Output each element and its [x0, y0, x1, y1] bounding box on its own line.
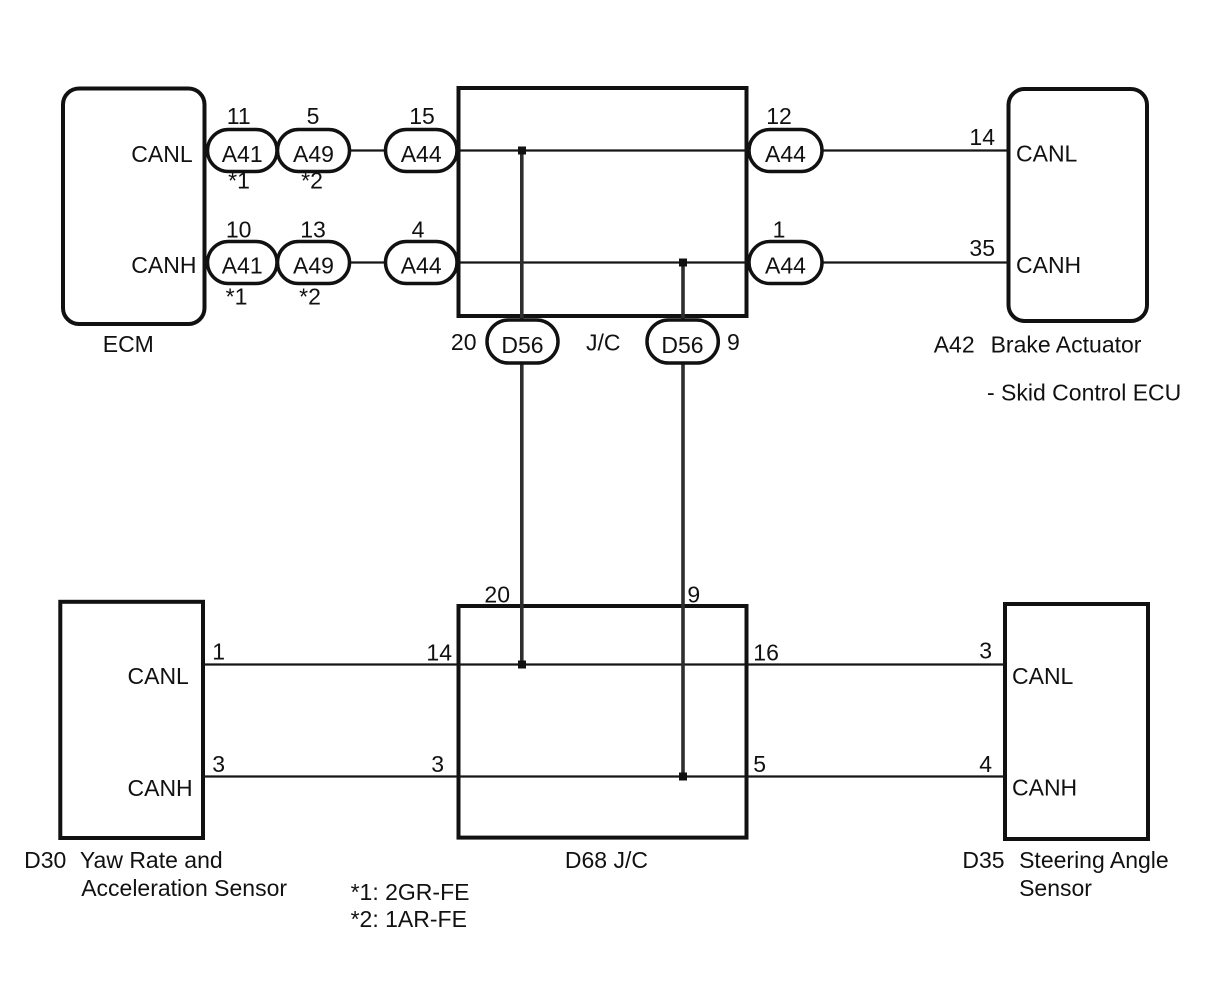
svg-text:A41: A41 [222, 141, 263, 167]
svg-text:12: 12 [766, 103, 792, 129]
svg-text:*2: *2 [299, 284, 321, 310]
svg-text:4: 4 [412, 217, 425, 243]
svg-text:A42: A42 [934, 332, 975, 358]
svg-text:CANH: CANH [1016, 252, 1081, 278]
svg-text:D35: D35 [962, 847, 1004, 873]
svg-text:A49: A49 [293, 141, 334, 167]
svg-text:Acceleration Sensor: Acceleration Sensor [81, 875, 287, 901]
svg-text:9: 9 [687, 582, 700, 608]
svg-text:5: 5 [307, 103, 320, 129]
svg-text:3: 3 [431, 751, 444, 777]
svg-text:20: 20 [484, 582, 510, 608]
svg-text:A44: A44 [401, 141, 442, 167]
svg-text:CANL: CANL [131, 141, 193, 167]
svg-text:A41: A41 [222, 253, 263, 279]
svg-text:Sensor: Sensor [1019, 875, 1092, 901]
svg-text:*2: *2 [301, 168, 323, 194]
svg-text:A49: A49 [293, 253, 334, 279]
svg-text:CANH: CANH [128, 775, 193, 801]
svg-text:CANL: CANL [1012, 663, 1074, 689]
svg-text:ECM: ECM [103, 331, 154, 357]
svg-text:11: 11 [227, 103, 251, 129]
svg-text:*1: *1 [226, 284, 248, 310]
svg-text:5: 5 [753, 751, 766, 777]
svg-text:*2: 1AR-FE: *2: 1AR-FE [351, 906, 467, 932]
svg-text:D30: D30 [24, 847, 66, 873]
svg-text:9: 9 [727, 329, 740, 355]
svg-text:CANH: CANH [1012, 775, 1077, 801]
svg-text:Steering Angle: Steering Angle [1019, 847, 1169, 873]
svg-text:A44: A44 [765, 253, 806, 279]
svg-text:1: 1 [773, 217, 786, 243]
svg-text:14: 14 [969, 124, 995, 150]
svg-text:16: 16 [753, 640, 779, 666]
svg-text:CANL: CANL [128, 663, 190, 689]
svg-text:1: 1 [212, 639, 225, 665]
svg-text:- Skid Control ECU: - Skid Control ECU [987, 380, 1181, 406]
svg-text:20: 20 [451, 329, 477, 355]
svg-text:10: 10 [226, 217, 252, 243]
svg-text:15: 15 [409, 103, 435, 129]
svg-text:*1: *1 [228, 168, 250, 194]
svg-text:Brake Actuator: Brake Actuator [991, 332, 1142, 358]
svg-text:D68 J/C: D68 J/C [565, 847, 648, 873]
svg-text:Yaw Rate and: Yaw Rate and [80, 847, 223, 873]
svg-text:14: 14 [426, 640, 452, 666]
svg-text:*1: 2GR-FE: *1: 2GR-FE [351, 879, 470, 905]
svg-text:4: 4 [979, 751, 992, 777]
svg-text:D56: D56 [661, 332, 703, 358]
svg-text:3: 3 [212, 751, 225, 777]
svg-text:D56: D56 [501, 332, 543, 358]
svg-text:3: 3 [979, 638, 992, 664]
svg-text:CANL: CANL [1016, 141, 1078, 167]
svg-text:A44: A44 [765, 141, 806, 167]
svg-text:35: 35 [969, 235, 995, 261]
svg-text:CANH: CANH [131, 252, 196, 278]
svg-text:J/C: J/C [586, 330, 621, 356]
svg-text:13: 13 [300, 217, 326, 243]
svg-text:A44: A44 [401, 253, 442, 279]
